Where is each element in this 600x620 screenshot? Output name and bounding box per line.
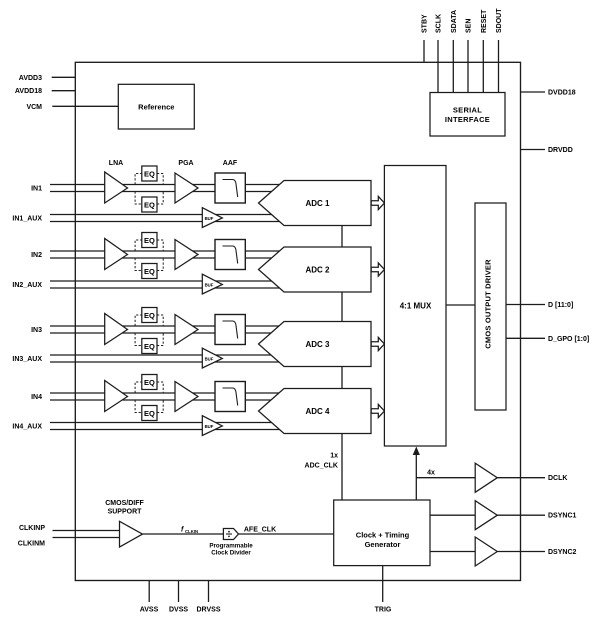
chip outer boundary [75,62,520,580]
serial interface U-SER [430,93,505,137]
svg-text:1x: 1x [330,453,338,460]
svg-text:IN1: IN1 [31,186,42,193]
svg-text:IN2: IN2 [31,252,42,259]
svg-text:SUPPORT: SUPPORT [108,509,143,516]
pin DSYNC2 wire [497,551,545,553]
svg-text:EQ: EQ [144,170,155,179]
svg-text:BUF: BUF [205,216,214,221]
pin RESET wire [482,40,484,93]
svg-text:IN4: IN4 [31,394,42,401]
wire dashed EQ bypass lower channel 2 [135,258,163,271]
pin AVDD18 wire [52,90,76,92]
wire IN2_AUX differential pair [50,281,281,288]
svg-text:Generator: Generator [365,540,401,549]
svg-text:D_GPO [1:0]: D_GPO [1:0] [548,336,589,343]
wire block arrow ADC 1 to MUX [371,196,384,209]
wire IN2 differential pair [50,251,281,258]
pin VCM wire to reference [52,105,118,107]
amplifier LNA channel 2 [105,239,128,270]
svg-text:BUF: BUF [205,424,214,429]
wire block arrow ADC 3 to MUX [371,337,384,350]
equalizer EQ lower channel 3 [142,339,157,354]
pin SDATA wire [452,40,454,93]
pin STBY wire [423,40,425,62]
svg-text:SDATA: SDATA [451,10,458,33]
mux 4:1 MUX [384,166,446,447]
wire AFE_CLK to clock generator [239,533,334,535]
buffer DCLK [475,463,497,492]
svg-text:ADC_CLK: ADC_CLK [305,463,338,470]
svg-text:DCLK: DCLK [548,475,567,482]
svg-text:EQ: EQ [144,409,155,418]
svg-text:Clock Divider: Clock Divider [211,550,251,557]
wire dashed EQ bypass upper channel 1 [135,174,163,185]
amplifier PGA channel 4 [175,382,198,412]
svg-text:DRVSS: DRVSS [197,607,221,614]
wire IN3 differential pair [50,326,281,333]
filter AAF channel 2 [215,240,245,270]
svg-text:EQ: EQ [144,267,155,276]
wire IN1 differential pair [50,185,281,192]
svg-text:EQ: EQ [144,378,155,387]
svg-text:EQ: EQ [144,201,155,210]
svg-text:LNA: LNA [109,160,123,167]
svg-text:DSYNC2: DSYNC2 [548,549,577,556]
wire block arrow ADC 4 to MUX [371,404,384,417]
wire dashed EQ bypass upper channel 3 [135,315,163,326]
svg-text:CLKINP: CLKINP [19,525,45,532]
svg-text:IN4_AUX: IN4_AUX [12,424,42,431]
pin D [11:0] wire [506,304,545,306]
pin SEN wire [467,40,469,93]
svg-text:ADC 1: ADC 1 [305,199,330,208]
svg-text:CMOS OUTPUT DRIVER: CMOS OUTPUT DRIVER [484,259,493,349]
wire DCLK from 4x branch [416,477,475,479]
svg-text:DVSS: DVSS [169,607,188,614]
svg-text:STBY: STBY [422,14,429,33]
buffer BUF aux channel 1 [202,208,222,228]
svg-text:IN1_AUX: IN1_AUX [12,216,42,223]
svg-text:4:1 MUX: 4:1 MUX [400,302,432,311]
wire 4x clock to MUX with arrowhead [415,452,417,500]
reference block [118,84,194,129]
svg-text:TRIG: TRIG [375,607,392,614]
pin DRVSS wire [208,581,210,603]
svg-text:CMOS/DIFF: CMOS/DIFF [105,500,144,507]
svg-text:AFE_CLK: AFE_CLK [244,527,276,534]
svg-text:EQ: EQ [144,236,155,245]
driver CMOS OUTPUT DRIVER [475,203,506,410]
wire dashed EQ bypass upper channel 2 [135,240,163,251]
pin DRVDD wire [521,149,546,151]
svg-text:AVDD18: AVDD18 [15,88,42,95]
pin DSYNC1 wire [497,514,545,516]
svg-text:EQ: EQ [144,311,155,320]
svg-text:D [11:0]: D [11:0] [548,302,573,309]
svg-text:ADC 3: ADC 3 [305,340,330,349]
filter AAF channel 3 [215,315,245,345]
equalizer EQ lower channel 2 [142,264,157,279]
svg-text:ADC 4: ADC 4 [305,407,330,416]
svg-text:CLKIN: CLKIN [185,529,198,534]
equalizer EQ upper channel 4 [142,375,157,390]
filter AAF channel 4 [215,382,245,412]
svg-text:AAF: AAF [223,160,238,167]
wire IN4 differential pair [50,393,281,400]
svg-text:RESET: RESET [481,9,488,33]
wire IN4_AUX differential pair [50,423,281,430]
amplifier LNA channel 3 [105,314,128,345]
equalizer EQ upper channel 2 [142,233,157,248]
svg-text:Programmable: Programmable [209,543,253,550]
svg-text:EQ: EQ [144,342,155,351]
wire MUX to CMOS driver [446,304,475,306]
svg-text:IN2_AUX: IN2_AUX [12,282,42,289]
svg-text:4x: 4x [427,470,435,477]
clock timing generator [334,500,430,566]
svg-text:INTERFACE: INTERFACE [445,115,490,124]
wire dashed EQ bypass lower channel 4 [135,400,163,413]
pin TRIG wire [382,566,384,602]
pin SDOUT wire [498,40,500,93]
buffer CMOS/DIFF SUPPORT [120,521,143,547]
equalizer EQ lower channel 4 [142,406,157,421]
wire clock buffer to divider [143,533,224,535]
svg-text:DRVDD: DRVDD [548,147,573,154]
svg-text:SERIAL: SERIAL [453,106,482,115]
buffer BUF aux channel 2 [202,274,222,294]
amplifier PGA channel 2 [175,240,198,270]
wire DSYNC1 [430,514,475,516]
divider programmable clock divider [223,529,238,540]
svg-text:DSYNC1: DSYNC1 [548,513,577,520]
wire IN3_AUX differential pair [50,355,281,362]
buffer DSYNC2 [475,537,497,566]
adc ADC 3 [259,322,372,367]
svg-text:SCLK: SCLK [436,14,443,33]
pin DCLK wire [497,477,545,479]
pin D_GPO [1:0] wire [506,337,545,339]
wire dashed EQ bypass lower channel 1 [135,192,163,205]
wire dashed EQ bypass lower channel 3 [135,333,163,346]
svg-text:AVSS: AVSS [140,607,159,614]
wire block arrow ADC 2 to MUX [371,263,384,276]
amplifier LNA channel 4 [105,381,128,412]
adc ADC 1 [259,181,372,226]
pin CLKINM wire [53,537,120,539]
amplifier LNA channel 1 [105,172,128,203]
svg-text:BUF: BUF [205,356,214,361]
svg-text:ADC 2: ADC 2 [305,265,330,274]
svg-text:IN3: IN3 [31,327,42,334]
wire ADC_CLK distribution vertical [341,226,343,501]
buffer DSYNC1 [475,501,497,530]
equalizer EQ lower channel 1 [142,197,157,212]
filter AAF channel 1 [215,173,245,203]
adc ADC 2 [259,247,372,292]
pin DVDD18 wire [521,91,546,93]
svg-text:Clock + Timing: Clock + Timing [356,531,410,540]
pin DVSS wire [178,581,180,603]
buffer BUF aux channel 3 [202,348,222,368]
svg-text:SDOUT: SDOUT [496,8,503,33]
adc ADC 4 [259,389,372,434]
svg-text:PGA: PGA [178,160,193,167]
svg-text:CLKINM: CLKINM [18,541,45,548]
pin SCLK wire [437,40,439,93]
amplifier PGA channel 3 [175,315,198,345]
amplifier PGA channel 1 [175,173,198,203]
svg-text:SEN: SEN [466,19,473,33]
wire DSYNC2 [430,551,475,553]
svg-text:DVDD18: DVDD18 [548,90,576,97]
svg-text:Reference: Reference [138,102,174,111]
svg-text:BUF: BUF [205,282,214,287]
svg-text:IN3_AUX: IN3_AUX [12,356,42,363]
buffer BUF aux channel 4 [202,416,222,436]
equalizer EQ upper channel 1 [142,166,157,181]
wire dashed EQ bypass upper channel 4 [135,382,163,393]
equalizer EQ upper channel 3 [142,308,157,323]
pin CLKINP wire [53,530,120,532]
pin AVDD3 wire [52,76,76,78]
pin AVSS wire [148,581,150,603]
svg-text:VCM: VCM [26,104,42,111]
svg-text:AVDD3: AVDD3 [19,75,42,82]
wire IN1_AUX differential pair [50,215,281,222]
